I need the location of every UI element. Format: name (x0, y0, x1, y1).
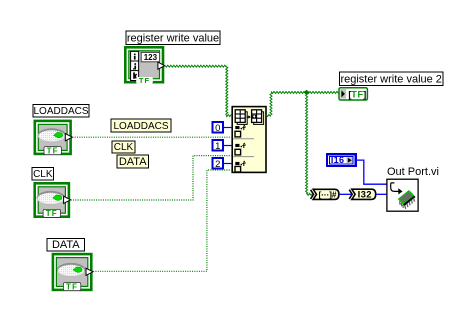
svg-text:TF: TF (139, 76, 150, 85)
wire: Boolean Array To Number to I32 (blue) (339, 193, 352, 195)
svg-text:DATA: DATA (52, 239, 80, 251)
svg-text:register write value: register write value (127, 33, 219, 45)
label: LOADDACS control (33, 105, 89, 118)
svg-text:]: ] (363, 89, 366, 99)
boolean control LOADDACS (34, 120, 73, 156)
numeric constant I16 (327, 154, 356, 166)
label: Out Port.vi (387, 166, 439, 178)
svg-text:TF: TF (47, 146, 59, 155)
subVI: Out Port.vi (387, 179, 418, 211)
svg-text:CLK: CLK (33, 169, 53, 180)
svg-text:register write value 2: register write value 2 (340, 73, 442, 85)
svg-text:123: 123 (144, 53, 158, 62)
boolean control CLK (33, 182, 70, 218)
free label: LOADDACS (111, 119, 171, 132)
svg-text:TF: TF (351, 89, 364, 99)
wire: CLK to element 1 (boolean dotted) (71, 156, 234, 200)
label: CLK control (32, 168, 54, 180)
wire: boolean array, node output to indicator (266, 91, 339, 116)
function: Boolean Array To Number [···]# (311, 189, 339, 199)
array constant U1: register write value (124, 46, 165, 85)
label: register write value (126, 31, 220, 45)
wire: I16 to Out Port.vi (blue) (356, 160, 387, 184)
wire: DATA to element 2 (boolean dotted) (93, 170, 233, 271)
boolean array indicator: register write value 2 (339, 88, 367, 100)
svg-text:DATA: DATA (119, 156, 147, 168)
svg-text:1: 1 (215, 141, 220, 152)
svg-text:I16: I16 (331, 155, 344, 165)
svg-text:0: 0 (215, 123, 220, 134)
wire: LOADDACS to element 0 (boolean dotted) (72, 136, 233, 138)
svg-text:Out Port.vi: Out Port.vi (387, 166, 439, 178)
svg-text:2: 2 (215, 159, 220, 170)
wire junction (304, 90, 310, 95)
index constant 2 with wire (213, 158, 233, 170)
label: DATA control (47, 238, 85, 251)
wire: boolean array, junction down to Boolean Array To Number (306, 92, 313, 195)
svg-text:[···]#: [···]# (319, 189, 337, 199)
wire: boolean array, constant to node array input (165, 65, 232, 116)
svg-text:CLK: CLK (114, 142, 134, 153)
function node: Replace Array Subset (232, 107, 266, 173)
free label: DATA (117, 155, 148, 168)
index constant 0 with wire (213, 122, 233, 134)
svg-text:LOADDACS: LOADDACS (33, 106, 88, 117)
svg-text:LOADDACS: LOADDACS (113, 121, 168, 132)
svg-text:TF: TF (46, 209, 58, 218)
svg-text:I32: I32 (358, 190, 372, 201)
free label: CLK (112, 141, 135, 153)
boolean control DATA (52, 253, 93, 292)
conversion: To I32 (349, 189, 376, 200)
svg-text:TF: TF (66, 282, 78, 291)
index constant 1 with wire (213, 140, 233, 152)
label: register write value 2 (340, 72, 443, 85)
wire: I32 to Out Port.vi (blue) (376, 193, 387, 195)
